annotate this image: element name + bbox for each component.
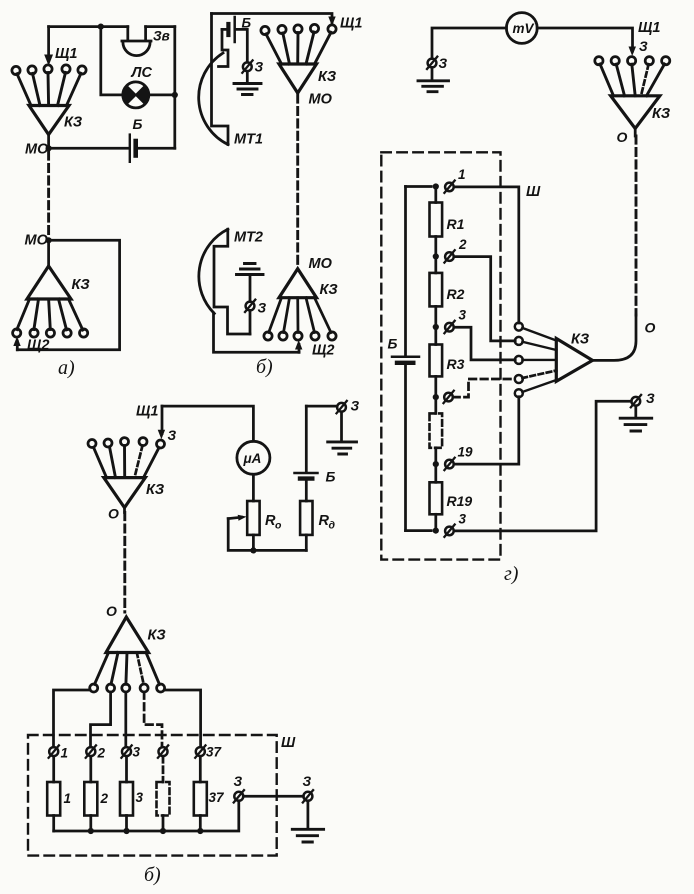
svg-text:З: З — [258, 301, 267, 316]
svg-text:КЗ: КЗ — [571, 332, 589, 348]
svg-text:2: 2 — [458, 237, 467, 252]
svg-text:Б: Б — [242, 16, 252, 31]
svg-text:R1: R1 — [447, 216, 465, 232]
svg-text:ЛС: ЛС — [131, 65, 153, 81]
svg-text:mV: mV — [513, 21, 535, 36]
svg-text:2: 2 — [100, 791, 109, 806]
svg-text:З: З — [168, 428, 177, 443]
svg-text:Ш: Ш — [526, 184, 541, 200]
svg-text:Ш: Ш — [281, 735, 296, 751]
svg-text:О: О — [106, 603, 117, 619]
svg-text:МО: МО — [25, 142, 49, 158]
svg-text:Б: Б — [326, 469, 336, 485]
svg-text:3: 3 — [136, 790, 144, 805]
svg-text:КЗ: КЗ — [64, 115, 82, 131]
svg-text:КЗ: КЗ — [146, 482, 164, 498]
svg-text:1: 1 — [64, 791, 72, 806]
svg-text:г): г) — [504, 563, 519, 585]
svg-text:З: З — [234, 774, 243, 789]
svg-text:КЗ: КЗ — [72, 277, 90, 293]
svg-text:μА: μА — [243, 451, 262, 466]
svg-text:З: З — [646, 391, 655, 406]
svg-text:Щ1: Щ1 — [638, 20, 660, 36]
svg-text:б): б) — [144, 864, 161, 886]
svg-text:МО: МО — [25, 233, 49, 249]
svg-text:Щ1: Щ1 — [340, 16, 362, 32]
svg-text:КЗ: КЗ — [320, 282, 338, 298]
svg-text:МО: МО — [309, 92, 333, 108]
svg-text:КЗ: КЗ — [148, 628, 166, 644]
svg-text:R3: R3 — [447, 356, 465, 372]
svg-text:О: О — [645, 320, 656, 336]
svg-text:3: 3 — [459, 308, 467, 323]
svg-text:Б: Б — [133, 116, 143, 132]
svg-text:МТ2: МТ2 — [234, 230, 263, 246]
svg-text:З: З — [351, 399, 360, 414]
svg-text:Щ1: Щ1 — [55, 46, 77, 62]
svg-text:б): б) — [256, 356, 273, 378]
svg-text:д: д — [329, 520, 336, 532]
svg-text:R2: R2 — [447, 286, 465, 302]
svg-text:З: З — [255, 60, 264, 75]
svg-text:КЗ: КЗ — [652, 106, 670, 122]
svg-text:3: 3 — [133, 745, 141, 760]
svg-text:Щ2: Щ2 — [27, 338, 49, 354]
svg-text:МО: МО — [309, 256, 333, 272]
svg-text:о: о — [275, 520, 282, 532]
svg-text:З: З — [303, 774, 312, 789]
svg-text:1: 1 — [61, 746, 69, 761]
svg-text:1: 1 — [458, 167, 466, 182]
svg-text:R19: R19 — [447, 493, 473, 509]
svg-text:19: 19 — [458, 445, 474, 460]
svg-text:37: 37 — [206, 745, 223, 760]
svg-text:Щ1: Щ1 — [136, 404, 158, 420]
svg-text:О: О — [617, 129, 628, 145]
svg-text:Б: Б — [388, 336, 398, 352]
svg-text:2: 2 — [97, 746, 106, 761]
svg-text:Щ2: Щ2 — [312, 343, 334, 359]
svg-text:37: 37 — [209, 790, 226, 805]
svg-text:КЗ: КЗ — [318, 69, 336, 85]
svg-text:З: З — [439, 56, 448, 71]
svg-text:О: О — [108, 506, 119, 522]
svg-text:МТ1: МТ1 — [234, 132, 263, 148]
svg-text:З: З — [639, 39, 648, 54]
svg-text:Зв: Зв — [153, 29, 170, 44]
svg-text:а): а) — [58, 357, 75, 379]
svg-text:3: 3 — [459, 512, 467, 527]
